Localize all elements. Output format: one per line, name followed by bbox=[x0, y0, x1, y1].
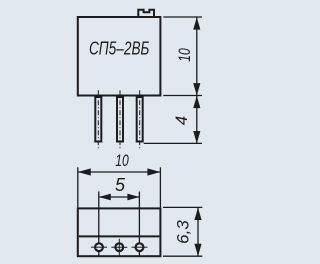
svg-text:6,3: 6,3 bbox=[174, 220, 193, 244]
svg-text:10: 10 bbox=[115, 151, 129, 170]
svg-text:СП5–2ВБ: СП5–2ВБ bbox=[89, 39, 150, 59]
svg-text:10: 10 bbox=[175, 48, 194, 62]
svg-text:5: 5 bbox=[115, 175, 126, 195]
svg-text:4: 4 bbox=[172, 116, 191, 125]
